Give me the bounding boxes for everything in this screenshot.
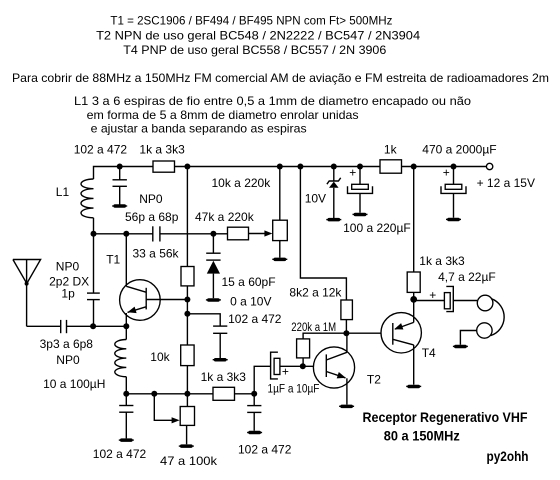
wire 8k2 feed from rail xyxy=(300,167,346,301)
electrolytic capacitor 4,7 a 22uF xyxy=(414,270,496,312)
wire 33k feed from rail xyxy=(186,167,188,267)
svg-text:1k a 3k3: 1k a 3k3 xyxy=(139,142,185,156)
node L1 bottom xyxy=(91,231,97,237)
ground under base bypass cap xyxy=(213,358,228,362)
inductor L1 xyxy=(56,179,94,234)
capacitor 102 a 472 top-left xyxy=(74,142,128,204)
electrolytic capacitor 470 a 2000uF xyxy=(422,142,496,217)
terminal +12 a 15V xyxy=(477,163,535,190)
svg-text:10k: 10k xyxy=(150,350,170,364)
node rail-zener xyxy=(331,164,337,170)
varicap diode 15 a 60pF xyxy=(206,234,275,309)
wire top rail left segment xyxy=(94,167,154,180)
arrow into pot2 wiper xyxy=(172,417,180,423)
node rail-33k line xyxy=(184,164,190,170)
node rail-pot1 xyxy=(277,164,283,170)
svg-text:T4 PNP de uso geral BC558 / BC: T4 PNP de uso geral BC558 / BC557 / 2N 3… xyxy=(123,43,386,57)
svg-text:15 a 60pF: 15 a 60pF xyxy=(222,275,276,289)
svg-text:T1: T1 xyxy=(106,252,120,266)
antenna xyxy=(13,260,89,327)
svg-text:+: + xyxy=(429,288,436,302)
node T4 emitter junction xyxy=(410,296,417,303)
svg-text:T2: T2 xyxy=(367,373,381,387)
svg-text:L1 3 a 6 espiras de fio entre: L1 3 a 6 espiras de fio entre 0,5 a 1mm … xyxy=(74,94,471,108)
capacitor NP0 56p a 68p xyxy=(125,192,213,242)
ground under bottom-middle cap xyxy=(247,431,262,435)
inductor 10 a 100uH xyxy=(43,326,126,394)
svg-text:NP0: NP0 xyxy=(139,192,163,206)
svg-text:py2ohh: py2ohh xyxy=(487,448,529,464)
svg-text:T1 = 2SC1906 / BF494 / BF495 N: T1 = 2SC1906 / BF494 / BF495 NPN com Ft>… xyxy=(110,14,392,28)
wire L1 bottom to T1 collector xyxy=(94,233,153,235)
svg-text:33 a 56k: 33 a 56k xyxy=(133,246,180,260)
svg-text:470 a 2000µF: 470 a 2000µF xyxy=(422,142,496,156)
ground under 100uF xyxy=(353,213,368,217)
resistor 8k2 a 12k xyxy=(289,286,352,334)
capacitor 102 a 472 base bypass xyxy=(187,312,281,358)
arrow into pot1 wiper xyxy=(264,230,272,236)
ground under headphones xyxy=(453,345,468,349)
svg-text:+: + xyxy=(443,166,450,180)
capacitor 102 a 472 bottom-left xyxy=(93,394,147,461)
node bottom 10k xyxy=(184,391,190,397)
node rail-8k2 line xyxy=(297,164,303,170)
svg-text:Para cobrir de 88MHz a 150MHz: Para cobrir de 88MHz a 150MHz FM comerci… xyxy=(12,71,549,85)
svg-text:1p: 1p xyxy=(61,286,75,300)
node rail-R1k3k3 T4 xyxy=(411,164,417,170)
wire top rail middle segment xyxy=(175,166,381,168)
ground under pot1 xyxy=(272,258,287,262)
node bottom pot wiper branch xyxy=(151,391,157,397)
svg-text:NP0: NP0 xyxy=(56,260,80,274)
svg-text:1k: 1k xyxy=(384,142,398,156)
wire antenna to cap3p3 xyxy=(27,325,61,327)
bottom wire left xyxy=(126,393,213,395)
svg-text:4,7 a 22µF: 4,7 a 22µF xyxy=(438,270,496,284)
resistor 10k xyxy=(150,345,194,394)
node rail-cap470uF xyxy=(451,164,457,170)
svg-text:L1: L1 xyxy=(56,185,70,199)
resistor 1k a 3k3 bottom xyxy=(201,370,255,400)
svg-text:1µF a 10µF: 1µF a 10µF xyxy=(268,383,320,396)
ground under pot2 xyxy=(179,444,194,448)
svg-text:102 a 472: 102 a 472 xyxy=(93,447,147,461)
svg-text:220k a 1M: 220k a 1M xyxy=(291,321,336,334)
svg-text:+: + xyxy=(349,166,356,180)
wire top rail right segment xyxy=(402,166,487,168)
svg-text:100 a 220µF: 100 a 220µF xyxy=(343,221,411,235)
node antenna-cap junction xyxy=(90,323,96,329)
transistor T2 xyxy=(313,333,381,404)
resistor 33 a 56k xyxy=(133,246,195,345)
node T1 base xyxy=(184,297,190,303)
resistor 220k a 1M feedback xyxy=(291,321,346,366)
svg-text:e ajustar a banda separando as: e ajustar a banda separando as espiras xyxy=(91,122,307,136)
svg-text:NP0: NP0 xyxy=(56,353,80,367)
potentiometer 47 a 100k xyxy=(160,394,218,468)
svg-text:102 a 472: 102 a 472 xyxy=(228,312,282,326)
svg-text:1k a 3k3: 1k a 3k3 xyxy=(201,370,247,384)
ground under 470uF xyxy=(446,218,461,222)
wire to 47k resistor xyxy=(213,233,227,235)
node T1 collector top xyxy=(123,231,129,237)
svg-text:T4: T4 xyxy=(422,346,436,360)
resistor R 1k a 3k3 top xyxy=(153,161,175,172)
svg-text:3p3 a 6p8: 3p3 a 6p8 xyxy=(40,337,94,351)
svg-text:10 a 100µH: 10 a 100µH xyxy=(43,377,105,391)
svg-text:47k a 220k: 47k a 220k xyxy=(195,210,255,224)
zener diode 10V xyxy=(305,167,341,219)
svg-text:1k a 3k3: 1k a 3k3 xyxy=(419,254,465,268)
transistor T4 xyxy=(381,299,436,384)
node rail-cap102 xyxy=(117,164,123,170)
ground under varicap xyxy=(206,298,221,302)
capacitor 3p3 a 6p8 xyxy=(40,320,94,367)
resistor 47k a 220k xyxy=(195,210,267,240)
svg-text:10V: 10V xyxy=(305,192,326,206)
node rail-cap100uF xyxy=(357,164,363,170)
ground under zener xyxy=(326,218,341,222)
node bottom right xyxy=(251,391,257,397)
node T1 emitter xyxy=(123,323,129,329)
resistor 1k a 3k3 right xyxy=(407,254,465,300)
svg-text:Receptor Regenerativo VHF: Receptor Regenerativo VHF xyxy=(363,409,528,425)
svg-text:56p a 68p: 56p a 68p xyxy=(125,210,179,224)
node varicap junction xyxy=(210,231,216,237)
ground under T2 emitter xyxy=(339,405,354,409)
wire T4 emitter feed from rail xyxy=(413,167,415,273)
svg-text:T2 NPN de uso geral BC548 / 2N: T2 NPN de uso geral BC548 / 2N2222 / BC5… xyxy=(96,29,420,43)
svg-text:102 a 472: 102 a 472 xyxy=(238,443,292,457)
node base cap branch xyxy=(184,311,190,317)
electrolytic capacitor 1uF a 10uF xyxy=(254,352,326,395)
capacitor 2p2 xyxy=(87,234,100,326)
wire pot2 wiper xyxy=(154,394,172,421)
svg-text:+ 12 a 15V: + 12 a 15V xyxy=(477,176,535,190)
svg-text:47 a 100k: 47 a 100k xyxy=(160,454,218,468)
headphones xyxy=(460,295,504,345)
ground under 102a472 cap xyxy=(112,204,127,208)
svg-text:10k a 220k: 10k a 220k xyxy=(212,176,272,190)
svg-text:em forma de 5 a 8mm de diametr: em forma de 5 a 8mm de diametro enrolar … xyxy=(87,108,359,122)
svg-text:80 a 150MHz: 80 a 150MHz xyxy=(384,428,460,444)
ground under bottom-left cap xyxy=(119,438,134,442)
node T2 collector xyxy=(343,330,349,336)
svg-text:102 a 472: 102 a 472 xyxy=(74,142,128,156)
electrolytic capacitor 100 a 220uF xyxy=(343,166,411,235)
resistor R 1k xyxy=(380,160,402,173)
svg-text:+: + xyxy=(282,365,289,379)
capacitor 102 a 472 bottom-middle xyxy=(238,394,292,457)
node T2 base xyxy=(300,363,306,369)
node bottom T1 xyxy=(123,391,129,397)
svg-text:8k2 a 12k: 8k2 a 12k xyxy=(289,286,342,300)
transistor T1 xyxy=(106,234,187,326)
wire to T1 emitter xyxy=(93,325,126,327)
wire T2 collector to T4 base xyxy=(346,332,392,334)
ground under T4 collector xyxy=(406,385,421,389)
potentiometer 10k a 220k xyxy=(212,167,288,258)
svg-text:0 a 10V: 0 a 10V xyxy=(230,295,271,309)
